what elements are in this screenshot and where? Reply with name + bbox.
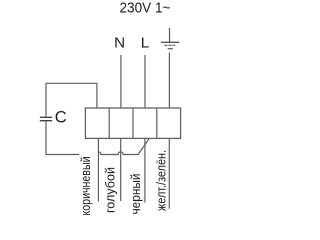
svg-text:желт./зелён.: желт./зелён.	[154, 150, 169, 211]
svg-text:черный: черный	[128, 174, 143, 215]
terminal block divider 2	[132, 108, 134, 138]
svg-text:N: N	[114, 34, 125, 51]
capacitor top wire (terminal1 to C)	[46, 83, 97, 116]
terminal block divider 1	[108, 108, 110, 138]
earth symbol bar 1	[161, 41, 179, 43]
wire L	[144, 55, 146, 108]
wire black (motor lead)	[144, 138, 146, 202]
wire yellow-green (motor lead)	[168, 138, 170, 208]
earth symbol bar 3	[168, 48, 173, 50]
white mask under label koricnevyj	[79, 149, 97, 218]
wire N	[120, 55, 122, 108]
svg-text:C: C	[55, 107, 67, 126]
wire brown (motor lead)	[97, 138, 99, 201]
svg-text:230V 1~: 230V 1~	[120, 1, 171, 17]
wire PE	[168, 53, 170, 109]
earth symbol lead	[169, 28, 171, 42]
capacitor bottom wire with hops to terminal 3	[46, 121, 149, 154]
wire blue (motor lead)	[120, 138, 122, 201]
capacitor C bottom plate	[40, 120, 52, 122]
svg-text:голубой: голубой	[103, 167, 118, 213]
terminal block divider 3	[156, 108, 158, 138]
capacitor C top plate	[40, 116, 52, 118]
terminal block outline	[85, 108, 180, 138]
svg-text:L: L	[141, 34, 149, 51]
earth symbol bar 2 (dashed)	[164, 44, 175, 46]
svg-text:коричневый: коричневый	[78, 157, 93, 216]
